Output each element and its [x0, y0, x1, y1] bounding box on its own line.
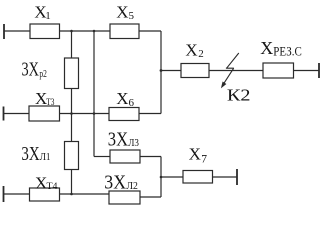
wire: [213, 176, 238, 178]
resistor X1: [30, 24, 60, 39]
resistor 3XL3: [110, 150, 140, 163]
svg-text:X: X: [35, 173, 47, 192]
resistor X6: [109, 108, 139, 121]
svg-text:3X: 3X: [108, 129, 129, 151]
terminal left row1: [3, 24, 5, 39]
wire: [71, 89, 73, 114]
svg-text:3X: 3X: [104, 172, 126, 194]
junction X7 branch: [160, 176, 163, 179]
resistor X7: [183, 171, 213, 184]
junction node to X2 branch: [160, 69, 163, 72]
wire: [140, 196, 161, 198]
wire: [139, 30, 161, 32]
junction row2 at 3XP2/3XL1 lead: [70, 112, 73, 115]
wire: [60, 30, 111, 32]
wire: [71, 170, 73, 195]
junction bottom row at 3XL1 lead: [70, 193, 73, 196]
junction at X1-X5 node: [93, 30, 96, 33]
svg-text:3X: 3X: [22, 59, 40, 81]
wire: [161, 176, 183, 178]
junction row2 at vertical line: [93, 112, 96, 115]
wire: [4, 113, 30, 115]
wire: [60, 113, 110, 115]
svg-text:Л2: Л2: [126, 181, 137, 192]
resistor XT4: [30, 188, 60, 201]
wire: [140, 156, 161, 158]
wire: [294, 70, 320, 72]
svg-text:р2: р2: [39, 69, 47, 80]
terminal left row2: [3, 107, 5, 121]
wire: [71, 114, 73, 142]
terminal right X7: [236, 169, 238, 185]
wire: [209, 70, 263, 72]
wire: [60, 193, 110, 195]
wire: [4, 193, 30, 195]
junction at X1-3XP2 lead: [70, 30, 73, 33]
wire: [93, 31, 95, 157]
wire: [161, 70, 181, 72]
wire: [94, 156, 110, 158]
terminal left row3: [3, 186, 5, 202]
wire: [160, 157, 162, 198]
resistor X2: [181, 64, 209, 78]
short-circuit bolt K2: [222, 53, 239, 86]
svg-text:3X: 3X: [21, 143, 40, 165]
svg-text:К2: К2: [227, 86, 251, 105]
resistor XT3: [29, 106, 60, 121]
terminal right row1: [318, 63, 320, 78]
svg-text:Т4: Т4: [47, 182, 58, 192]
resistor X5: [110, 24, 139, 39]
wire: [160, 31, 162, 114]
svg-text:Л1: Л1: [40, 152, 51, 163]
resistor XREZ.C: [263, 63, 294, 78]
wire: [4, 30, 30, 32]
resistor 3XL1: [65, 142, 79, 170]
bolt arrowhead: [221, 82, 227, 89]
svg-text:Л3: Л3: [128, 138, 139, 149]
wire: [71, 31, 73, 58]
svg-text:Т3: Т3: [46, 98, 54, 108]
wire: [139, 113, 161, 115]
resistor 3XP2: [65, 58, 79, 89]
resistor 3XL2: [109, 191, 140, 204]
